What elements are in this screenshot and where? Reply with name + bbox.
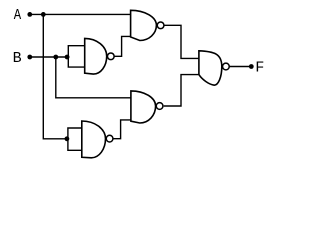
wire U2 output to U4 lower input — [114, 120, 132, 139]
wire U1 output to U3 lower input — [114, 36, 131, 56]
wire U1 input bracket — [68, 46, 85, 67]
nand gate U3 body — [131, 10, 157, 40]
node F terminal dot — [249, 64, 254, 69]
node A terminal dot — [27, 12, 32, 17]
nand gate U5 body — [199, 51, 222, 85]
node B junction dot — [53, 55, 58, 60]
node B terminal dot — [27, 55, 32, 60]
nand gate U3 bubble — [157, 22, 164, 29]
wire U5 output to F — [230, 66, 252, 68]
wire A horizontal to U3 — [30, 13, 131, 15]
nand gate U2 bubble — [106, 135, 113, 142]
wire U2 input bracket — [68, 128, 82, 150]
node U2 input junction dot — [65, 136, 70, 141]
nand gate U4 body — [131, 91, 156, 123]
wire B horizontal to U1 bracket — [30, 56, 68, 58]
node U1 input junction dot — [65, 55, 70, 60]
nand gate U4 bubble — [156, 103, 163, 110]
nand gate U2 body — [82, 121, 106, 158]
nand gate U1 bubble — [107, 53, 114, 60]
svg-text:F: F — [255, 59, 264, 77]
svg-text:B: B — [13, 50, 22, 67]
wire A riser down to U2 input — [43, 14, 67, 138]
svg-text:A: A — [14, 8, 22, 24]
nand gate U5 bubble — [223, 63, 230, 70]
nand gate U1 body — [85, 38, 107, 74]
wire U3 output to U5 upper input — [164, 25, 199, 58]
wire B riser down to U4 input — [56, 57, 131, 98]
node A junction dot — [41, 12, 46, 17]
wire U4 output to U5 lower input — [164, 75, 200, 106]
